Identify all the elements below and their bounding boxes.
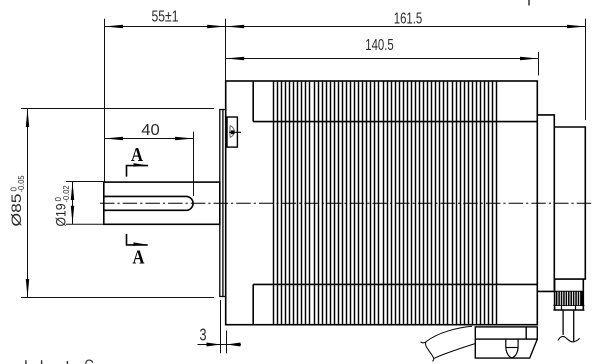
motor cable lower curve: [434, 343, 476, 358]
terminal detail: [227, 117, 237, 147]
cooling fins: [274, 81, 497, 325]
svg-text:55±1: 55±1: [152, 9, 179, 26]
extension line dia85 bottom: [21, 297, 214, 299]
front bell divider: [252, 81, 254, 122]
svg-text:-0.05: -0.05: [17, 175, 26, 193]
rear step boss: [537, 115, 554, 292]
bottom connector block row1: [475, 327, 537, 339]
cable break: [421, 341, 427, 343]
svg-text:A: A: [133, 247, 145, 269]
svg-text:40: 40: [141, 122, 160, 139]
encoder housing: [554, 127, 585, 279]
svg-text:Ø85: Ø85: [8, 193, 24, 226]
stray tick: [528, 0, 530, 6]
dim 40: [105, 138, 194, 140]
dim 161.5: [226, 26, 586, 28]
motor cable upper curve: [427, 326, 473, 341]
bottom connector block row2: [475, 339, 537, 358]
connector hatch: [556, 292, 583, 305]
cut-off caption glyph strokes: [26, 360, 68, 364]
connector bottom cells: [561, 305, 563, 310]
dim 140.5: [226, 58, 539, 60]
encoder connector: [554, 279, 556, 310]
shaft: [104, 182, 220, 224]
svg-text:3: 3: [200, 325, 207, 345]
svg-text:161.5: 161.5: [394, 11, 423, 28]
dim dia85: [27, 109, 29, 298]
extension line body rear: [538, 52, 540, 76]
svg-text:Ø19: Ø19: [53, 203, 69, 226]
extension line encoder right: [585, 19, 587, 120]
body corner lines: [253, 121, 537, 123]
extension line body front: [226, 331, 228, 354]
svg-text:-0.02: -0.02: [62, 185, 71, 203]
motor body outline: [226, 81, 538, 325]
section marker top: [127, 166, 149, 177]
extension line dia85 top: [21, 108, 214, 110]
section marker bottom: [127, 234, 148, 245]
extension line dia19 bottom: [66, 223, 104, 225]
extension line dia19 top: [66, 181, 104, 183]
dim dia19: [72, 182, 74, 225]
centerline axis: [100, 202, 593, 204]
pilot boss: [220, 110, 226, 297]
extension line shaft end: [104, 19, 106, 182]
label dia85 tolerance: [8, 175, 26, 227]
encoder cable: [562, 310, 564, 335]
keyway slot: [104, 196, 193, 210]
label dia19 tolerance: [53, 185, 71, 227]
dim 3: [198, 344, 242, 346]
cable break wave: [558, 336, 580, 341]
extension line keyway end: [193, 132, 195, 196]
svg-text:A: A: [131, 144, 143, 166]
dim 55±1: [105, 26, 226, 28]
extension line flange face: [225, 19, 227, 81]
svg-text:140.5: 140.5: [365, 37, 394, 54]
cable U notch: [506, 339, 518, 358]
extension line boss front: [220, 300, 222, 353]
